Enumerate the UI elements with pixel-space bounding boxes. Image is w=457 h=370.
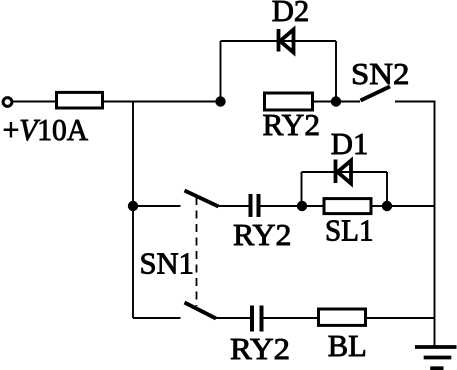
wire D2 branch top horizontal <box>221 40 337 42</box>
wire RY2 coil to node B <box>313 101 337 103</box>
wire BL to right rail <box>366 317 435 319</box>
node A junction dot <box>215 96 225 106</box>
relay contact RY2a (capacitor-style plates) <box>251 194 259 217</box>
wire right rail vertical <box>434 101 436 348</box>
wire SN1b to contact RY2b <box>216 317 250 319</box>
wire D1 branch right vertical <box>386 172 388 206</box>
svg-text:SN1: SN1 <box>140 246 195 281</box>
svg-text:D1: D1 <box>331 126 369 161</box>
ground <box>415 347 457 368</box>
fuse 10A (box) <box>57 92 103 108</box>
node D junction dot <box>297 201 307 211</box>
switch SN1a blade (middle) <box>185 191 219 207</box>
wire node E to right rail <box>387 205 435 207</box>
wire SN2 contact to right rail <box>395 101 436 103</box>
wire SN1a to contact RY2a <box>219 205 249 207</box>
wire fuse to node A <box>103 101 221 103</box>
svg-text:+V10A: +V10A <box>3 112 89 147</box>
node C junction dot (middle row left) <box>128 201 138 211</box>
solenoid SL1 (box) <box>324 199 371 214</box>
svg-text:SL1: SL1 <box>325 213 374 248</box>
switch SN2 blade <box>361 87 391 101</box>
svg-text:RY2: RY2 <box>233 217 292 252</box>
svg-text:SN2: SN2 <box>351 56 410 91</box>
wire RY2a to node D <box>259 205 303 207</box>
svg-text:BL: BL <box>328 328 367 363</box>
wire SL1 to node E <box>371 205 387 207</box>
wire D2 branch left vertical <box>220 41 222 102</box>
switch SN1 linkage dashed line <box>196 197 198 306</box>
svg-text:RY2: RY2 <box>230 331 290 366</box>
wire left branch vertical <box>132 102 134 319</box>
wire terminal to fuse <box>13 101 56 103</box>
svg-text:RY2: RY2 <box>263 107 321 142</box>
bell BL (box) <box>319 309 366 325</box>
svg-text:D2: D2 <box>272 0 310 28</box>
relay coil RY2 (box) <box>265 93 313 110</box>
wire D1 branch top horizontal <box>302 171 388 173</box>
wire bottom row from left branch <box>133 317 181 319</box>
node B junction dot <box>331 96 341 106</box>
diode D1 <box>336 160 352 184</box>
wire node D to solenoid SL1 <box>302 205 324 207</box>
switch SN1b blade (bottom) <box>185 303 217 319</box>
diode D2 <box>279 29 294 53</box>
wire node C to switch SN1a <box>133 205 181 207</box>
wire D1 branch left vertical <box>301 172 303 206</box>
wire node B to switch SN2 <box>336 101 360 103</box>
node E junction dot <box>382 201 392 211</box>
relay contact RY2b (capacitor-style plates) <box>252 306 262 332</box>
wire RY2b to bell BL <box>262 317 319 319</box>
wire D2 branch right vertical <box>335 41 337 102</box>
terminal +V input <box>3 98 12 107</box>
